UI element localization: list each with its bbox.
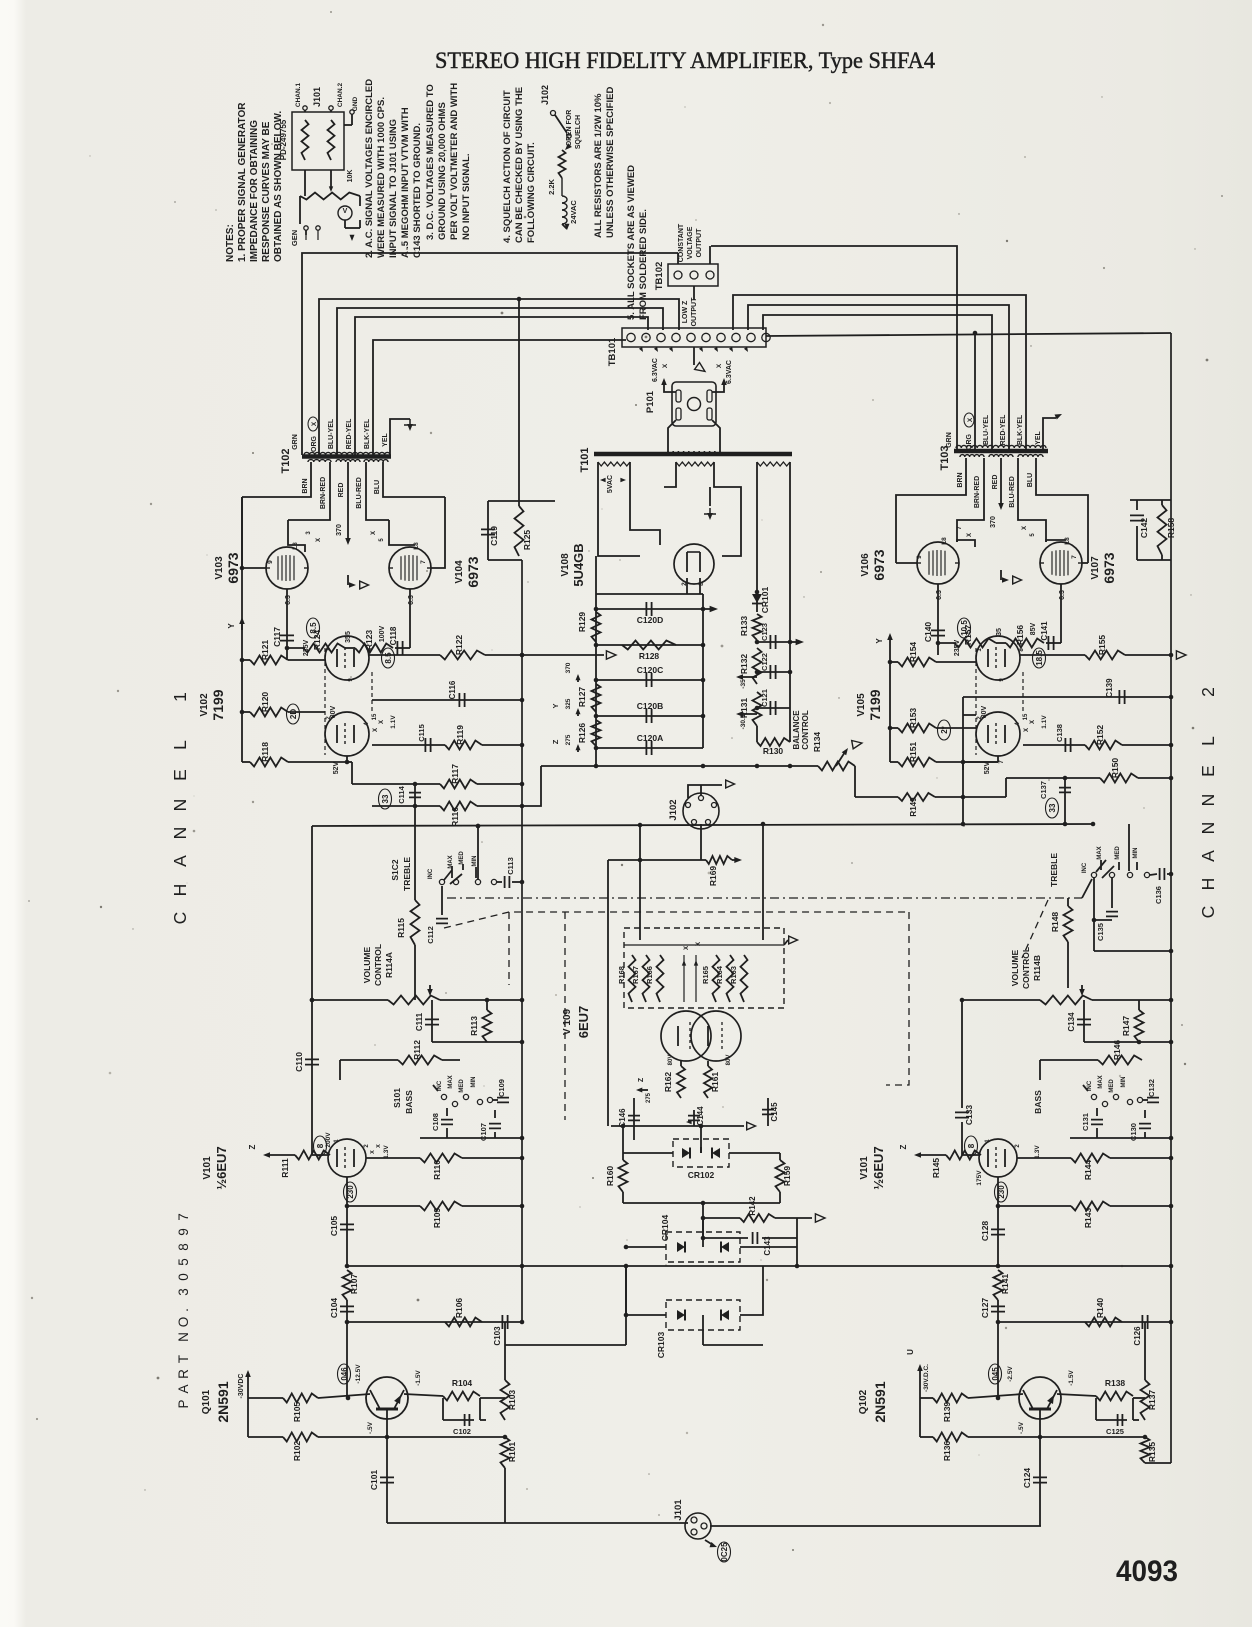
svg-text:RED: RED: [338, 483, 345, 498]
resistor R101: [501, 1437, 518, 1523]
transformer T102 windings: [302, 452, 391, 462]
resistor R137: [1133, 1322, 1157, 1420]
V101 200V label: [314, 1132, 333, 1156]
svg-text:N: N: [170, 799, 190, 812]
V109 grid caps: [682, 942, 702, 1002]
T102 lead BLK-YEL: [364, 340, 626, 455]
svg-text:85V: 85V: [1030, 622, 1037, 635]
svg-text:BLK-YEL: BLK-YEL: [1017, 414, 1024, 445]
svg-text:R114B: R114B: [1032, 955, 1042, 981]
svg-text:R129: R129: [577, 612, 587, 633]
svg-text:C101: C101: [369, 1470, 379, 1491]
T102 lead ORG: [311, 297, 679, 455]
svg-text:5U4GB: 5U4GB: [571, 543, 586, 586]
note 2 text: [364, 79, 423, 258]
svg-text:C121: C121: [760, 689, 769, 707]
J101 arrow and oval: [705, 1540, 731, 1562]
svg-text:R153: R153: [908, 708, 918, 729]
V102 80V label: [330, 705, 337, 718]
svg-text:R137: R137: [1147, 1390, 1157, 1411]
svg-text:045: 045: [991, 1367, 1000, 1381]
svg-text:PER VOLT VOLTMETER AND WITH: PER VOLT VOLTMETER AND WITH: [449, 83, 460, 240]
resistor R142: [703, 1196, 825, 1238]
T103 lead YEL: [1035, 414, 1062, 450]
svg-text:C111: C111: [415, 1012, 424, 1031]
svg-text:7199: 7199: [867, 689, 883, 720]
Q101 base row: [248, 1394, 370, 1400]
capacitor C101: [369, 1437, 394, 1523]
T101 winding right: [757, 462, 790, 466]
svg-text:CONTROL: CONTROL: [373, 944, 383, 986]
svg-text:1.1V: 1.1V: [1041, 715, 1048, 729]
svg-text:6.3: 6.3: [936, 590, 943, 600]
svg-text:3: 3: [306, 531, 312, 535]
note 4 text: [502, 87, 537, 243]
potentiometer R134: [818, 741, 862, 798]
capacitor C126: [1133, 1315, 1148, 1346]
svg-text:8: 8: [1019, 648, 1025, 652]
svg-text:NOTES:: NOTES:: [225, 224, 236, 262]
svg-text:C128: C128: [980, 1221, 990, 1242]
svg-text:CONTROL: CONTROL: [801, 710, 810, 750]
note 5 text: [626, 165, 649, 320]
svg-text:V107: V107: [1090, 556, 1101, 580]
capacitor C108: [431, 1108, 453, 1138]
V109 top row: [624, 936, 798, 945]
capacitor C107: [479, 1110, 501, 1141]
T102 lead RED-YEL: [346, 317, 648, 455]
terminal strip TB102 label: [654, 262, 665, 291]
svg-text:18.5: 18.5: [1035, 650, 1044, 666]
svg-text:Z: Z: [551, 739, 560, 744]
svg-text:R136: R136: [942, 1441, 952, 1462]
capacitor C132: [1137, 1079, 1159, 1103]
svg-text:L: L: [1198, 736, 1218, 746]
long bus center: [630, 1264, 1171, 1269]
svg-text:6973: 6973: [225, 552, 241, 583]
svg-text:V105: V105: [856, 693, 867, 717]
tube V101 ch1: [328, 1139, 382, 1177]
step wire to filter bus: [522, 766, 541, 806]
note1 J101 labels: [295, 83, 359, 112]
resistor R154: [890, 642, 976, 667]
T103 lead BRN-RED: [957, 458, 984, 542]
resistor R158: [1158, 500, 1177, 560]
svg-text:R143: R143: [1083, 1208, 1093, 1229]
svg-text:A: A: [176, 1384, 191, 1393]
resistor R132: [739, 648, 762, 684]
resistor R147: [1121, 1000, 1144, 1042]
capacitor C118: [389, 626, 403, 655]
net -30.5 arrow: [736, 711, 757, 729]
resistor R133: [739, 614, 762, 640]
net 370 arrow: [565, 662, 581, 682]
resistor R157: [954, 625, 996, 648]
svg-text:C117: C117: [272, 627, 282, 647]
resistor R124: [303, 630, 345, 653]
T103 lead RED: [990, 458, 1004, 528]
resistor R119: [372, 724, 524, 752]
svg-text:100V: 100V: [379, 626, 386, 643]
CR row y1203: [623, 1201, 780, 1206]
svg-text:O: O: [176, 1317, 191, 1328]
svg-text:V 109: V 109: [562, 1008, 573, 1035]
R142 rail drop: [796, 1238, 798, 1266]
svg-text:R165: R165: [701, 966, 710, 984]
svg-text:X: X: [376, 1144, 382, 1148]
resistor R128: [596, 641, 703, 662]
net Y 325 arrow: [551, 698, 581, 716]
svg-text:S1C2: S1C2: [390, 859, 400, 881]
value 355 label: [345, 631, 352, 643]
svg-text:RED: RED: [992, 475, 999, 490]
svg-text:3: 3: [176, 1288, 191, 1296]
svg-text:A: A: [1198, 850, 1218, 862]
svg-text:R117: R117: [450, 764, 460, 784]
right channel rail x890: [888, 642, 893, 762]
V103 cathode wire: [286, 589, 288, 625]
svg-text:1.3V: 1.3V: [383, 1145, 390, 1159]
svg-text:R144: R144: [1083, 1160, 1093, 1181]
switch S1C2 treble label: [390, 857, 412, 891]
svg-text:P: P: [176, 1399, 191, 1408]
resistor R151: [890, 742, 998, 767]
svg-text:2: 2: [1015, 1144, 1021, 1148]
svg-text:MAX: MAX: [1098, 1075, 1104, 1088]
svg-text:H: H: [1198, 878, 1218, 891]
volume control R114B label: [1010, 947, 1042, 989]
diode pair CR104: [624, 1203, 797, 1262]
dashed line volume: [444, 912, 909, 928]
potentiometer R114B: [960, 985, 1174, 1005]
svg-text:C118: C118: [389, 626, 398, 645]
svg-text:33: 33: [381, 794, 390, 803]
C114 oval 33: [379, 789, 392, 809]
svg-text:CONSTANT: CONSTANT: [678, 223, 685, 262]
svg-text:-1.5V: -1.5V: [1068, 1370, 1075, 1386]
svg-text:X: X: [1024, 728, 1030, 732]
svg-text:R113: R113: [469, 1016, 479, 1036]
svg-text:7: 7: [1071, 555, 1078, 559]
capacitor C134: [1067, 1000, 1091, 1042]
capacitor C116: [372, 680, 524, 707]
note1 meter: [338, 196, 360, 228]
svg-text:A .5 MEGOHM INPUT VTVM WITH: A .5 MEGOHM INPUT VTVM WITH: [400, 107, 411, 258]
svg-text:C138: C138: [1055, 724, 1064, 742]
diode CR101: [752, 587, 770, 614]
svg-text:-1.5V: -1.5V: [415, 1370, 422, 1386]
svg-text:C124: C124: [1022, 1468, 1032, 1489]
svg-text:15: 15: [372, 713, 378, 720]
T103 lead BLU-RED: [1009, 458, 1046, 542]
svg-text:C131: C131: [1081, 1113, 1090, 1131]
dashed vertical right: [886, 912, 909, 1085]
svg-text:35: 35: [996, 628, 1003, 636]
svg-text:E: E: [170, 769, 190, 781]
svg-text:R152: R152: [1095, 725, 1105, 746]
svg-text:R118: R118: [260, 742, 270, 762]
tube V106 label: [860, 549, 887, 580]
svg-text:MAX: MAX: [1097, 846, 1103, 859]
svg-text:-35: -35: [740, 679, 747, 689]
tube V102 pentode: [325, 636, 374, 682]
T103 lead ORG: [766, 331, 1171, 450]
note4 24VAC coil: [562, 178, 578, 230]
resistor R162: [663, 1061, 685, 1098]
svg-text:C143: C143: [763, 1236, 772, 1256]
svg-text:C103: C103: [493, 1326, 502, 1346]
svg-text:80V: 80V: [330, 705, 337, 718]
svg-text:8: 8: [316, 1143, 325, 1148]
svg-text:R167: R167: [631, 966, 640, 984]
svg-text:TREBLE: TREBLE: [1049, 853, 1059, 887]
svg-text:1. PROPER SIGNAL GENERATOR: 1. PROPER SIGNAL GENERATOR: [237, 102, 248, 262]
svg-text:R141: R141: [1000, 1274, 1010, 1295]
Q102 oval 045: [989, 1364, 1002, 1384]
svg-text:C119: C119: [489, 526, 499, 546]
resistor R107: [343, 1270, 360, 1300]
svg-text:FOLLOWING CIRCUIT.: FOLLOWING CIRCUIT.: [526, 142, 537, 243]
svg-text:VOLUME: VOLUME: [362, 946, 372, 983]
svg-text:R101: R101: [507, 1442, 517, 1463]
capacitor C111: [415, 1000, 439, 1042]
note1 terminals: [303, 106, 354, 125]
note4 squelch switch: [551, 110, 583, 150]
net Y arrow ch1: [227, 617, 245, 630]
value 35 label ch2: [996, 628, 1003, 636]
TB101 wire left 2: [662, 328, 664, 330]
balance control label: [792, 710, 822, 752]
bass bottom row ch2: [1070, 1136, 1173, 1141]
capacitor C109: [487, 1079, 509, 1103]
svg-text:MIN: MIN: [1133, 848, 1139, 859]
svg-text:7: 7: [999, 760, 1005, 764]
capacitor C102: [443, 1398, 486, 1436]
svg-text:C123: C123: [760, 623, 769, 641]
svg-text:C133: C133: [964, 1105, 974, 1126]
svg-text:TB101: TB101: [607, 337, 618, 366]
svg-text:C144: C144: [696, 1106, 705, 1126]
resistor R143: [996, 1202, 1174, 1229]
svg-text:R169: R169: [708, 866, 718, 887]
capacitor C131: [1081, 1108, 1103, 1138]
V107 cathode wire: [1060, 584, 1062, 643]
svg-text:9: 9: [916, 555, 923, 559]
resistor R144: [1017, 1154, 1173, 1181]
supply -30VDC ch1: [238, 1370, 251, 1398]
Q102 voltage labels: [1007, 1366, 1075, 1434]
S2C2 contacts: [1082, 824, 1150, 898]
resistor R118: [242, 742, 347, 767]
J102 bus drop left: [608, 825, 642, 1126]
svg-text:Z: Z: [899, 1144, 908, 1149]
svg-text:X: X: [967, 417, 974, 422]
svg-text:ALL RESISTORS ARE 1/2W 10%: ALL RESISTORS ARE 1/2W 10%: [593, 93, 604, 238]
svg-text:CHAN.1: CHAN.1: [295, 83, 302, 108]
resistor R122: [369, 635, 616, 660]
C142 R158 block: [1130, 500, 1171, 560]
connector J101 bottom: [673, 1499, 711, 1539]
channel 2 label: [1198, 687, 1218, 918]
C137 net: [962, 762, 964, 770]
svg-text:R126: R126: [577, 723, 587, 744]
svg-text:7: 7: [420, 560, 427, 564]
svg-text:C120A: C120A: [637, 733, 663, 743]
svg-text:370: 370: [565, 662, 572, 673]
svg-text:Q101: Q101: [201, 1389, 212, 1414]
supply -30VDC ch2: [906, 1349, 930, 1398]
T103 ORG circled X: [964, 413, 974, 427]
resistor R127: [577, 684, 601, 712]
svg-text:MAX: MAX: [448, 1075, 454, 1088]
resistor R161: [704, 1061, 720, 1098]
long rail x611: [762, 824, 764, 940]
svg-text:R112: R112: [412, 1040, 422, 1060]
tube V109 label: [562, 1006, 591, 1039]
svg-text:Q102: Q102: [858, 1389, 869, 1414]
svg-text:GEN: GEN: [290, 230, 299, 246]
svg-text:5: 5: [379, 538, 385, 542]
svg-text:C135: C135: [1096, 923, 1105, 941]
volume bottom row: [432, 1040, 524, 1045]
resistor R139: [933, 1394, 968, 1423]
V102 52V label: [333, 761, 340, 774]
capacitor C103: [493, 1315, 508, 1346]
svg-text:BLU-RED: BLU-RED: [1009, 476, 1016, 508]
T103 lead BRN: [896, 458, 966, 552]
svg-text:N: N: [170, 827, 190, 840]
svg-text:C132: C132: [1147, 1079, 1156, 1097]
svg-text:-.5V: -.5V: [367, 1421, 374, 1434]
svg-text:-12.5V: -12.5V: [355, 1364, 362, 1384]
resistor R121: [242, 640, 325, 665]
svg-text:R125: R125: [522, 530, 532, 551]
svg-text:MAX: MAX: [448, 855, 454, 868]
svg-text:325: 325: [565, 698, 572, 709]
capacitor C120C: [596, 665, 703, 687]
transformer T101 core: [594, 452, 792, 457]
svg-text:R168: R168: [617, 966, 626, 984]
C137 drop: [963, 697, 976, 824]
capacitor C141: [1040, 621, 1054, 650]
svg-text:5. ALL SOCKETS ARE AS VIEWED: 5. ALL SOCKETS ARE AS VIEWED: [626, 165, 637, 320]
svg-text:Z: Z: [638, 1077, 645, 1082]
P101 wire 6.3VAC left: [652, 358, 676, 392]
resistor R159: [776, 1153, 793, 1203]
Q101 oval 046: [338, 1364, 351, 1384]
svg-text:0C25: 0C25: [720, 1542, 729, 1562]
svg-text:N: N: [1198, 822, 1218, 835]
long vertical x626 to bus: [505, 1264, 628, 1345]
svg-text:CR102: CR102: [688, 1170, 715, 1180]
J102 top loop: [688, 780, 735, 798]
note4 J102 label: [540, 85, 550, 105]
T101 left loop: [598, 462, 660, 556]
svg-text:CR104: CR104: [660, 1215, 670, 1242]
svg-text:C120D: C120D: [637, 615, 663, 625]
TB101 common wire: [694, 347, 705, 371]
T102 lead BLU: [374, 462, 445, 497]
svg-text:STEREO HIGH FIDELITY AMPLIFIER: STEREO HIGH FIDELITY AMPLIFIER, Type SHF…: [435, 48, 935, 74]
capacitor C104: [329, 1298, 354, 1322]
tube V103: [266, 542, 308, 605]
svg-text:-30VDC: -30VDC: [238, 1374, 245, 1399]
svg-text:P101: P101: [645, 390, 656, 413]
transformer T103 windings: [954, 445, 1048, 457]
V101 1.3V label: [383, 1145, 390, 1159]
page number 4093: [1116, 1555, 1178, 1588]
T102 lead GRN: [292, 253, 678, 455]
svg-text:C110: C110: [294, 1052, 304, 1072]
svg-text:X: X: [716, 363, 723, 368]
svg-text:X: X: [371, 531, 377, 535]
capacitor C128: [980, 1206, 1005, 1266]
volume bottom row ch2: [1084, 1040, 1173, 1045]
V102 plate oval: [382, 648, 395, 668]
svg-text:RESPONSE CURVES MAY BE: RESPONSE CURVES MAY BE: [261, 121, 272, 262]
resistor R113: [469, 998, 492, 1042]
svg-text:0: 0: [176, 1273, 191, 1281]
svg-text:N: N: [1198, 794, 1218, 807]
svg-text:BRN: BRN: [302, 478, 309, 493]
V101 175V label ch2: [965, 1136, 984, 1186]
part number: [176, 1213, 191, 1408]
svg-text:8: 8: [698, 582, 705, 586]
svg-text:230: 230: [346, 1185, 355, 1199]
V109 dashed box: [624, 928, 784, 1008]
Q102 emitter wire: [1038, 1419, 1043, 1439]
V102 1.1V label: [390, 715, 397, 729]
V105 2 oval: [938, 720, 951, 740]
resistor R104: [404, 1378, 480, 1401]
resistor R112: [340, 1040, 460, 1080]
svg-text:R166: R166: [645, 966, 654, 984]
C127 to base: [997, 1322, 999, 1398]
V105 80V label: [981, 705, 988, 718]
svg-text:7: 7: [176, 1213, 191, 1221]
transformer T103 label: [939, 445, 951, 470]
long bus left: [345, 1264, 630, 1269]
svg-text:V102: V102: [199, 693, 210, 717]
svg-text:BLU: BLU: [374, 480, 381, 494]
right rail x1171: [1169, 333, 1174, 1463]
svg-text:WERE MEASURED WITH 1000 CPS.: WERE MEASURED WITH 1000 CPS.: [376, 97, 387, 258]
resistor R106: [445, 1298, 482, 1327]
capacitor C137 sym: [1039, 778, 1071, 826]
V107 plate wire: [1082, 552, 1088, 563]
resistor R105: [283, 1394, 318, 1423]
svg-text:2N591: 2N591: [215, 1381, 231, 1422]
capacitor C123: [755, 623, 804, 649]
capacitor C113: [497, 857, 524, 888]
transformer T102 label: [280, 448, 292, 473]
svg-text:R134: R134: [812, 732, 822, 753]
treble common drop: [476, 824, 481, 879]
R150 row: [1006, 758, 1173, 783]
C137 oval 33: [1046, 798, 1059, 818]
V101 230 oval ch1: [344, 1177, 357, 1206]
Q101 -5V label: [367, 1421, 374, 1434]
svg-text:CR101: CR101: [760, 587, 770, 614]
net Y arrow ch2: [875, 633, 893, 644]
svg-text:TREBLE: TREBLE: [402, 857, 412, 891]
svg-text:8.5: 8.5: [384, 652, 393, 664]
svg-text:FROM SOLDERED SIDE.: FROM SOLDERED SIDE.: [638, 209, 649, 320]
resistor R167: [631, 955, 650, 1002]
resistor R126: [577, 720, 601, 746]
tube V107: [1040, 537, 1082, 600]
resistor R125: [515, 506, 533, 556]
